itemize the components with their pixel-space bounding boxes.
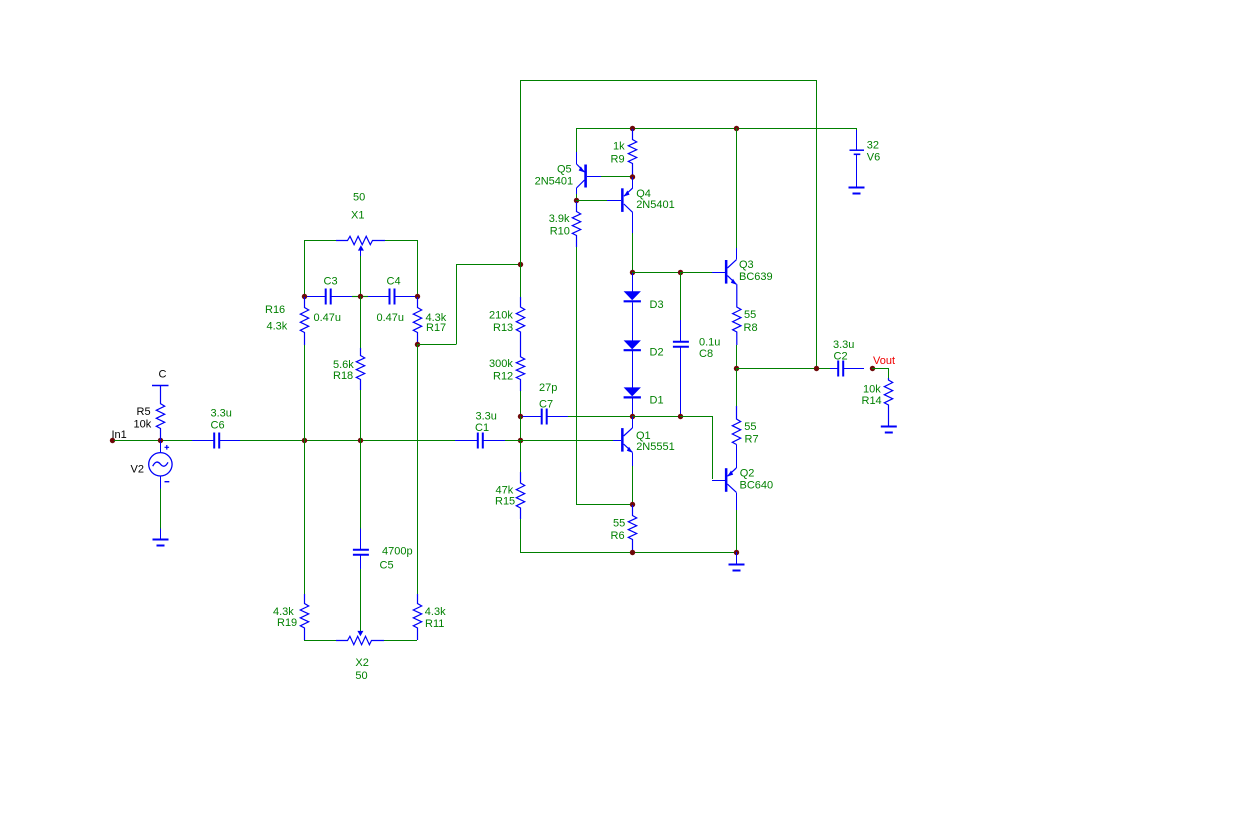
wire Q3 collector to +V rail [736, 128, 738, 248]
svg-text:1k: 1k [613, 141, 625, 153]
resistor R9 [628, 129, 636, 176]
capacitor C3 [306, 296, 325, 298]
transistor Q4 (2N5401 PNP) [632, 177, 634, 188]
resistor R18 [360, 296, 362, 348]
wire Q2 collector down to ground rail [736, 510, 738, 552]
svg-text:C6: C6 [211, 420, 225, 432]
svg-text:0.47u: 0.47u [314, 312, 342, 324]
svg-text:C: C [159, 369, 167, 381]
svg-text:C5: C5 [380, 560, 394, 572]
resistor R12 [516, 334, 524, 391]
wire down to R15 [520, 440, 522, 472]
svg-text:R9: R9 [611, 154, 625, 166]
wire D1 node to C8 bottom [632, 416, 680, 418]
svg-text:R14: R14 [862, 395, 882, 407]
svg-text:X2: X2 [355, 657, 368, 669]
wire X1 wiper down to C3/C4 node [360, 256, 362, 296]
wire D1 to bottom node [632, 398, 634, 416]
svg-text:BC639: BC639 [739, 271, 773, 283]
wire down from junction to R13 [520, 264, 522, 297]
svg-text:10k: 10k [134, 419, 152, 431]
wire C1 to Q1 base [505, 440, 613, 442]
resistor R14 [884, 378, 892, 427]
svg-text:55: 55 [744, 421, 756, 433]
svg-text:Q5: Q5 [557, 164, 572, 176]
svg-text:R6: R6 [611, 530, 625, 542]
svg-text:R11: R11 [425, 618, 444, 630]
svg-text:D1: D1 [650, 395, 664, 407]
wire top bus [520, 80, 816, 82]
svg-text:X1: X1 [351, 210, 364, 222]
wire Q3 base from diode top node [680, 272, 712, 274]
wire R17 node to feedback column [417, 344, 457, 346]
capacitor C1 [455, 440, 477, 442]
terminal C (top of R5) [152, 385, 169, 387]
wire D2-D1 [632, 351, 634, 387]
svg-text:50: 50 [353, 192, 365, 204]
wire D3-D2 [632, 303, 634, 341]
wire X1 right side down [417, 240, 419, 296]
source V6 (battery 32V) [856, 128, 858, 130]
junction output node (R8/R7) [734, 366, 739, 371]
resistor R10 [572, 202, 580, 247]
junction top of R13 column [518, 262, 523, 267]
svg-text:4.3k: 4.3k [425, 606, 446, 618]
junction C3 left [302, 294, 307, 299]
wire right drop of top bus to output node [816, 80, 818, 368]
ground (below R14) [881, 427, 897, 433]
svg-text:V6: V6 [867, 152, 880, 164]
svg-text:R17: R17 [426, 322, 446, 334]
wire output node to C2 [736, 368, 830, 370]
wire V2 to ground [160, 489, 162, 529]
wire X1 right lead [385, 240, 417, 242]
resistor R7 [736, 368, 738, 406]
svg-text:10k: 10k [863, 384, 881, 396]
svg-text:In1: In1 [112, 429, 127, 441]
junction C3/C4 center [358, 294, 363, 299]
junction Q2 collector / ground [734, 550, 739, 555]
svg-text:C4: C4 [387, 276, 401, 288]
wire R8 to output node [736, 345, 738, 368]
wire Q5 base to R9 bottom node [601, 176, 632, 178]
wire Q5 collector to R10 node [576, 194, 578, 200]
wire In1 to R5/V2 node [114, 440, 192, 442]
potentiometer X2 [304, 640, 336, 642]
junction C4 right [415, 294, 420, 299]
junction R6 bottom [630, 550, 635, 555]
diode D1 [624, 387, 641, 396]
junction input row x520 [518, 438, 523, 443]
svg-text:0.47u: 0.47u [377, 312, 405, 324]
resistor R13 [516, 297, 524, 334]
node In1 (input port) [110, 438, 115, 443]
wire C5 down to X2 wiper [360, 569, 362, 631]
svg-text:C8: C8 [699, 348, 713, 360]
svg-text:2N5551: 2N5551 [636, 441, 675, 453]
capacitor C8 [680, 272, 682, 320]
svg-text:R7: R7 [745, 434, 759, 446]
svg-text:Q3: Q3 [739, 259, 754, 271]
junction C8 top [678, 270, 683, 275]
wire +V rail [576, 128, 856, 130]
svg-text:R10: R10 [550, 226, 570, 238]
svg-text:55: 55 [744, 309, 756, 321]
wire Q4 base [576, 200, 607, 202]
wire R12 down [520, 391, 522, 416]
resistor R11 [417, 344, 419, 594]
wire X1 left side down [304, 240, 306, 296]
junction Q3 collector rail [734, 126, 739, 131]
wire diode node to C8 top [632, 272, 680, 274]
junction R9 top [630, 126, 635, 131]
svg-text:V2: V2 [131, 464, 144, 476]
resistor R6 [628, 505, 636, 552]
svg-text:27p: 27p [539, 382, 557, 394]
wire rail corner down to Q5 emitter [576, 128, 578, 152]
diode D2 [624, 340, 641, 349]
source V2 (AC) [160, 441, 162, 453]
svg-text:R16: R16 [265, 304, 285, 316]
svg-text:55: 55 [613, 518, 625, 530]
svg-text:R13: R13 [493, 322, 513, 334]
wiper arrow of X1 [358, 245, 364, 250]
svg-text:R8: R8 [744, 322, 758, 334]
junction at x360 on input row [358, 438, 363, 443]
svg-text:300k: 300k [489, 358, 513, 370]
svg-text:3.3u: 3.3u [833, 339, 854, 351]
svg-text:50: 50 [355, 670, 367, 682]
wire left to X1 [304, 240, 336, 242]
ground (below V2) [153, 540, 169, 546]
svg-text:R5: R5 [137, 406, 151, 418]
junction C8 bottom [678, 414, 683, 419]
junction D1 bottom / C7 node [630, 414, 635, 419]
svg-text:4700p: 4700p [382, 546, 413, 558]
wire C8 bottom node to Q2 base [680, 416, 712, 418]
wire C6 to input node network [240, 440, 455, 442]
svg-text:D3: D3 [650, 299, 664, 311]
junction Q1 emitter / R6 top [630, 502, 635, 507]
svg-text:C2: C2 [834, 351, 848, 363]
resistor R16 [300, 297, 308, 345]
wire Q4 collector down to diode node [632, 233, 634, 272]
transistor Q2 (BC640 PNP) [712, 480, 725, 482]
transistor Q5 (2N5401 PNP) [576, 152, 578, 164]
diode D3 [632, 273, 634, 292]
junction C7 row x520 [518, 414, 523, 419]
svg-text:D2: D2 [650, 347, 664, 359]
svg-text:0.1u: 0.1u [699, 337, 720, 349]
capacitor C2 [830, 368, 838, 370]
svg-text:Q2: Q2 [740, 468, 755, 480]
junction at x304 on input row [302, 438, 307, 443]
svg-text:R12: R12 [493, 371, 513, 383]
wire between junctions x520 [520, 416, 522, 440]
svg-text:R19: R19 [277, 617, 297, 629]
wire Q1 emitter down [632, 466, 634, 504]
svg-text:BC640: BC640 [740, 480, 774, 492]
capacitor C4 [368, 296, 389, 298]
svg-text:R18: R18 [333, 370, 353, 382]
junction below R17 [415, 342, 420, 347]
wire C7 to D1 node [568, 416, 632, 418]
svg-text:4.3k: 4.3k [267, 321, 288, 333]
svg-text:2N5401: 2N5401 [636, 199, 675, 211]
junction output at top-bus drop [814, 366, 819, 371]
resistor R5 [156, 386, 164, 440]
wiper arrow of X2 [357, 631, 363, 636]
ground (output stage) [736, 552, 738, 564]
capacitor C5 [360, 440, 362, 529]
resistor R17 [413, 297, 421, 344]
svg-text:C7: C7 [539, 399, 553, 411]
svg-text:R15: R15 [495, 496, 515, 508]
junction Q4 base / Q5 collector / R10 top [574, 198, 579, 203]
wire left drop of top bus [520, 80, 522, 264]
wire R18 down to input row [360, 390, 362, 440]
svg-text:3.9k: 3.9k [549, 213, 570, 225]
wire R10 down to Q1 emitter node [576, 247, 578, 504]
transistor Q3 (BC639 NPN) [712, 272, 725, 274]
transistor Q1 (2N5551 NPN) [613, 440, 621, 442]
svg-text:3.3u: 3.3u [476, 411, 497, 423]
svg-text:210k: 210k [489, 310, 513, 322]
svg-text:Vout: Vout [873, 355, 895, 367]
wire bottom emitter rail [520, 552, 736, 554]
wire R16 down to input row [304, 345, 306, 440]
svg-text:32: 32 [867, 140, 879, 152]
junction diode top node [630, 270, 635, 275]
capacitor C6 [192, 440, 214, 442]
wire Vout to R14 [872, 368, 888, 370]
svg-text:2N5401: 2N5401 [535, 176, 574, 188]
resistor R19 [304, 440, 306, 594]
svg-text:C3: C3 [324, 276, 338, 288]
ground (below V6) [849, 188, 865, 194]
wire R15 to bottom rail [520, 519, 522, 552]
resistor R8 [733, 284, 741, 345]
capacitor C7 [523, 416, 542, 418]
node Vout [870, 366, 875, 371]
junction node at R5/V2 [158, 438, 163, 443]
svg-text:3.3u: 3.3u [211, 408, 232, 420]
wire X2 right lead [384, 640, 417, 642]
junction R9 bottom / Q4 emitter [630, 174, 635, 179]
svg-text:C1: C1 [475, 422, 489, 434]
potentiometer X1 [336, 236, 385, 244]
resistor R15 [516, 472, 524, 519]
